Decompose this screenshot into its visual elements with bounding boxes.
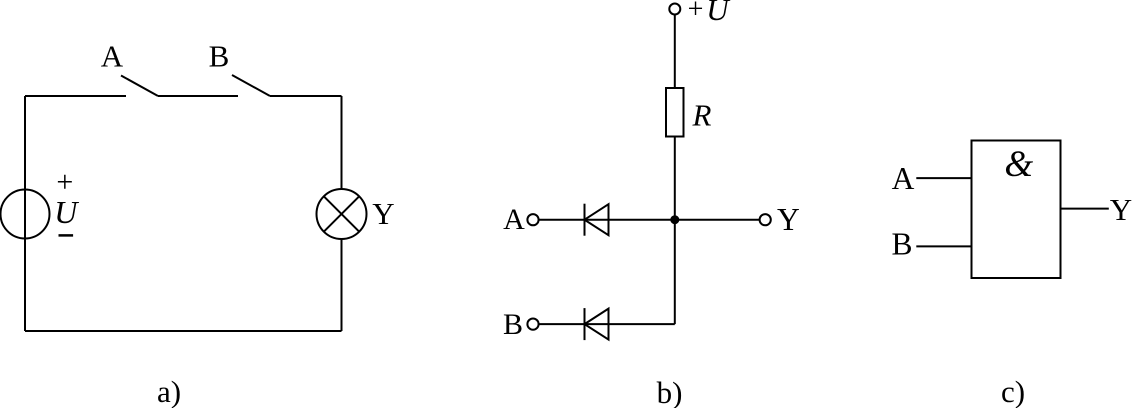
svg-text:B: B — [891, 227, 912, 262]
svg-text:A: A — [101, 39, 124, 74]
svg-text:A: A — [503, 203, 525, 236]
svg-text:U: U — [706, 0, 731, 27]
svg-text:A: A — [892, 161, 915, 196]
svg-text:c): c) — [1001, 374, 1025, 408]
svg-text:+: + — [688, 0, 704, 25]
svg-text:a): a) — [157, 374, 181, 408]
svg-text:R: R — [692, 97, 712, 132]
svg-text:B: B — [503, 308, 523, 341]
svg-text:Y: Y — [777, 202, 800, 237]
svg-text:U: U — [54, 194, 79, 230]
svg-text:B: B — [209, 39, 230, 74]
svg-text:b): b) — [657, 375, 683, 408]
svg-text:&: & — [1004, 144, 1033, 185]
svg-text:Y: Y — [1110, 192, 1132, 227]
svg-text:Y: Y — [372, 196, 394, 231]
